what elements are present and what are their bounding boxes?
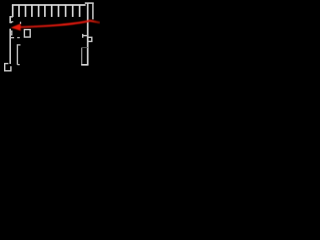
wire: corridor wall stub down (20, 22, 22, 24)
wire: comb tooth 1 (12, 5, 14, 17)
wire: right niche box (88, 37, 92, 41)
wire: bottom-left square room (5, 64, 11, 71)
wire: comb tooth 6 (44, 5, 46, 17)
wire: door jamb tick upper (10, 22, 12, 24)
wire: comb tooth 10 (72, 5, 74, 17)
wire: left wall upper segment (9, 16, 11, 23)
wire: right column wall (92, 3, 94, 20)
wire: right outer wall (87, 3, 89, 65)
background (0, 0, 100, 75)
wire: comb tooth 8 (58, 5, 60, 17)
wire: middle wall vertical (16, 44, 18, 64)
wire: comb tooth 2 (18, 5, 20, 17)
wire: small room rectangle (24, 30, 30, 37)
wire: bottom wall (81, 64, 88, 66)
wire: top comb header wall (12, 4, 86, 6)
wire: bottom-right pocket top (82, 47, 88, 49)
wire: comb tooth 5 (38, 5, 40, 17)
wire: corridor wall under comb (20, 21, 80, 23)
wire: comb tooth 9 (65, 5, 67, 17)
wire: left wall lower segment (9, 29, 11, 64)
wire: floating door stub at y38 (17, 37, 20, 39)
wire: comb tooth 3 (25, 5, 27, 17)
red annotation line (19, 21, 100, 28)
red arrowhead (11, 24, 21, 31)
wire: bottom-right pocket left wall (81, 48, 83, 65)
wire: raised lintel top right (85, 2, 94, 4)
wire: middle wall corner (17, 44, 20, 46)
wire: door tick at y38 left (10, 37, 14, 39)
wire: right door jamb (82, 34, 84, 38)
wire: comb tooth 7 (51, 5, 53, 17)
wire: right door tick (83, 35, 88, 37)
wire: door header stub at corridor (10, 21, 13, 23)
wire: comb tooth 11 (79, 5, 81, 17)
wire: middle wall foot (17, 64, 19, 66)
wire: left corner into comb (10, 16, 13, 18)
wire: comb tooth 4 (31, 5, 33, 17)
wire: door jamb niche box (10, 31, 11, 35)
